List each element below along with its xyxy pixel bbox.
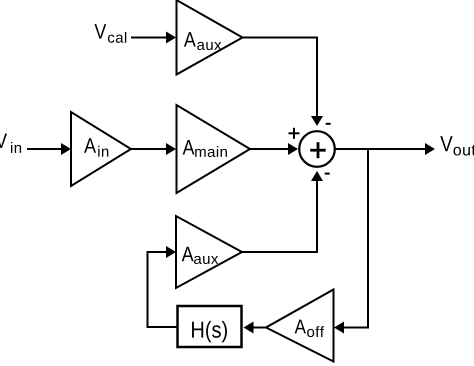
minus sign at summer top input xyxy=(326,123,331,125)
minus sign at summer bottom input xyxy=(325,173,330,175)
op-amp A_main xyxy=(177,105,251,193)
node V_out label xyxy=(440,136,474,155)
node V_in label xyxy=(0,133,21,152)
summing junction xyxy=(299,131,335,167)
wire H(s) output left, up, and right into lower A_aux xyxy=(147,246,178,328)
wire lower A_aux output right and up into summer bottom xyxy=(242,171,323,253)
wire A_off output to H(s) input xyxy=(244,322,267,334)
wire A_in output to A_main input xyxy=(131,143,176,155)
wire feedback tap from output line down and left into A_off xyxy=(334,148,368,334)
wire from top A_aux output down into summer top xyxy=(243,37,324,127)
op-amp A_off (left pointing) xyxy=(266,290,334,362)
op-amp A_in xyxy=(71,112,131,186)
plus sign at summer left input xyxy=(289,128,300,139)
node V_cal label xyxy=(94,24,126,43)
wire V_cal input arrow into top A_aux xyxy=(131,32,176,44)
op-amp A_aux (lower feedback amplifier) xyxy=(176,216,242,288)
op-amp A_aux (top calibration amplifier) xyxy=(177,0,243,75)
wire A_main output to summer left input xyxy=(250,143,298,155)
wire summer output to V_out xyxy=(335,143,435,155)
block H(s) xyxy=(178,306,242,347)
wire V_in input arrow into A_in xyxy=(27,143,71,155)
